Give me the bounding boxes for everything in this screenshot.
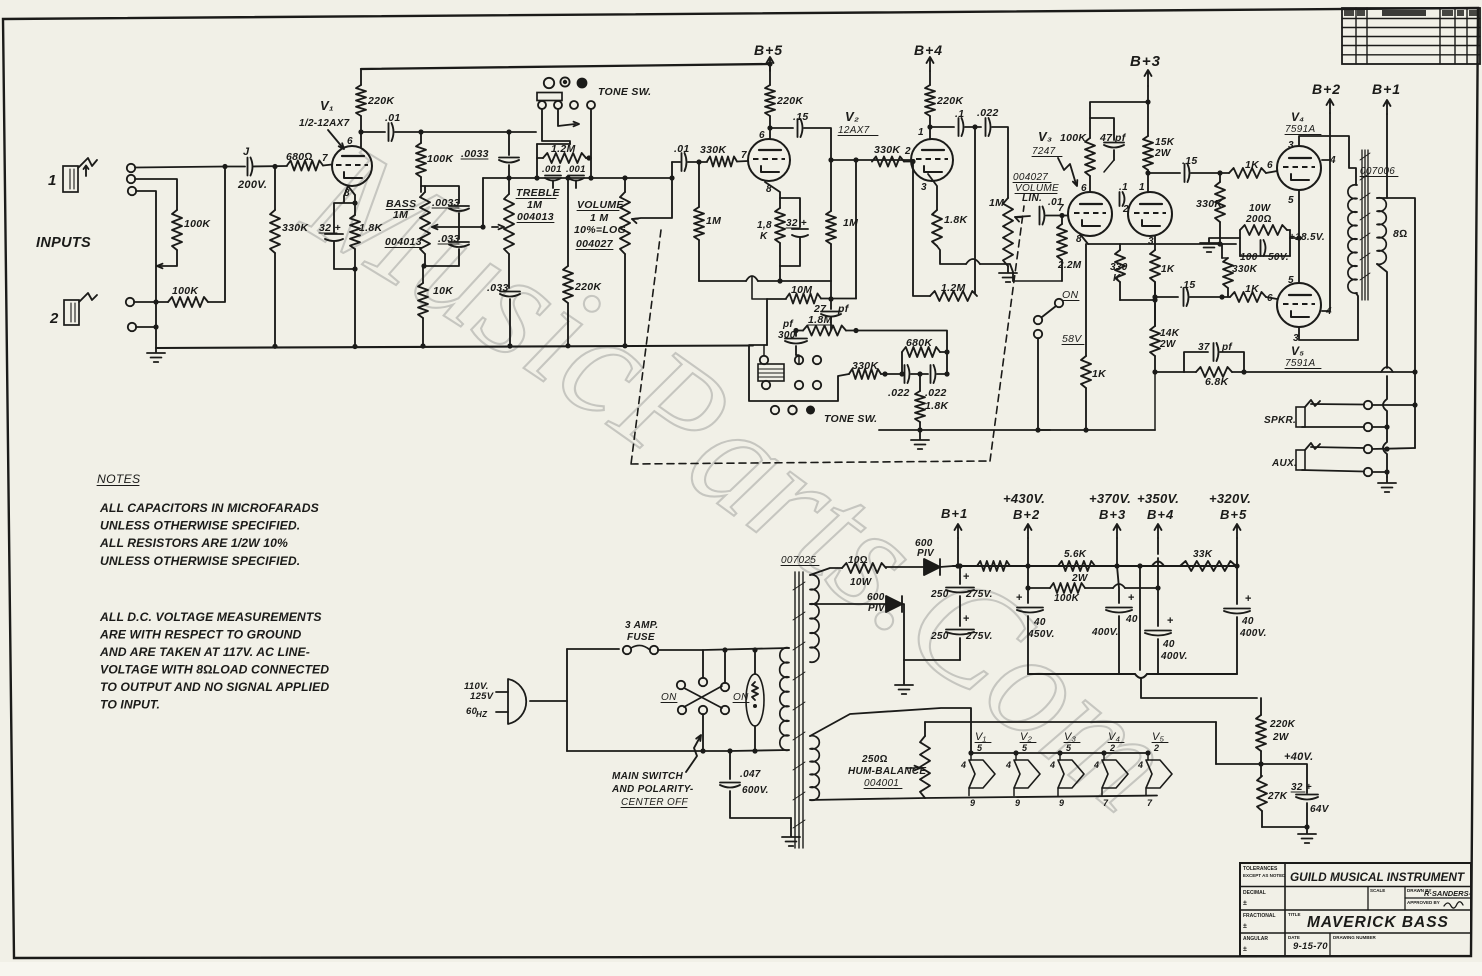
pin 1 V2b [918,127,924,138]
resistor 220K V2a plate [765,64,804,138]
arrow V3 label [1058,158,1077,186]
wire jack2 sleeve [136,324,159,329]
svg-text:7: 7 [741,150,747,161]
power transformer core [793,572,805,848]
tone switch SW2 slider [758,364,784,381]
wire bias cap link [1261,764,1307,793]
tone switch SW2 bottom row [771,406,815,415]
pin 3 V3b [1148,236,1154,247]
input jack J1 tip contact [127,164,135,172]
svg-text:6: 6 [1267,293,1273,304]
svg-text:TITLE: TITLE [1288,912,1301,917]
resistor 330K upper grid [1196,173,1225,247]
svg-text:004013: 004013 [517,211,554,223]
label TONE SW. upper [598,86,651,98]
svg-text:2: 2 [904,146,911,157]
output transformer secondary [1377,198,1386,265]
svg-text:ALL RESISTORS ARE 1/2W 10%: ALL RESISTORS ARE 1/2W 10% [99,536,288,550]
fuse [623,645,658,654]
label NOTES heading [97,472,140,486]
svg-text:450V.: 450V. [1027,629,1055,640]
svg-text:1,8: 1,8 [757,220,772,231]
pin 7 V1 [322,153,328,164]
resistor 330K V2a grid [700,144,737,167]
svg-text:4: 4 [960,760,966,770]
wire cap bottoms [904,659,960,661]
svg-text:12AX7: 12AX7 [838,125,870,136]
power arrow B+4 [927,57,934,71]
resistor 330K tone sw2 [849,360,881,379]
tube V1 1/2-12AX7 [332,146,372,186]
wire volume wiper to .01 [672,161,680,163]
svg-text:32 +: 32 + [786,218,807,229]
power arrow B+4 psu [1155,524,1162,591]
svg-text:100K: 100K [1054,593,1080,604]
wire bias feed [1137,563,1257,698]
svg-text:1K: 1K [1245,283,1260,295]
svg-text:HZ: HZ [476,710,488,719]
svg-text:7: 7 [1147,798,1153,808]
label B+2 [1312,81,1341,97]
junction 330K right [882,371,887,376]
svg-text:V₃: V₃ [1038,129,1052,144]
svg-text:37: 37 [1198,342,1210,353]
svg-text:.15: .15 [1180,279,1196,291]
wire 2.2M ground link [1013,280,1062,282]
label 2 [49,310,59,327]
capacitor .15 upper [1148,155,1198,182]
svg-text:5.6K: 5.6K [1064,549,1087,560]
wire AUX tip [1311,446,1415,451]
input jack J1 [63,158,97,192]
wire heater pin5 rail [971,752,1148,754]
label AUX. [1271,458,1297,469]
svg-text:V₄: V₄ [1108,731,1120,743]
label +370V B+3 [1089,491,1131,522]
resistor 27K bias [1257,776,1288,827]
main switch contacts lower [678,706,729,714]
resistor 2.2M V3 grid [1057,216,1082,282]
svg-text:400V.: 400V. [1091,627,1119,638]
svg-text:.022: .022 [977,107,999,119]
svg-text:+: + [963,571,970,583]
wire jack1 tip to node A [135,167,225,168]
resistor 1.8K V2b cathode [932,210,968,246]
svg-text:2W: 2W [1159,339,1177,350]
svg-text:PIV: PIV [917,548,935,559]
power transformer primary [780,648,789,751]
wire bass pot bottom [421,254,426,283]
svg-text:1K: 1K [1245,159,1260,171]
resistor rail dropper [977,561,1010,571]
svg-text:UNLESS OTHERWISE SPECIFIED.: UNLESS OTHERWISE SPECIFIED. [100,554,300,568]
svg-text:100K: 100K [184,218,211,230]
capacitor 40uF 400V b4 [1145,588,1188,674]
capacitor .01 V3 grid [1040,197,1063,225]
pin 3 V4 [1288,140,1294,151]
svg-text:B+3: B+3 [1130,53,1161,70]
rail hop B+4 [1152,562,1164,567]
wire cap to 680 ohm [253,165,287,168]
svg-text:NOTES: NOTES [97,472,140,486]
arrow main switch pointer [686,735,701,772]
wire tail join [1120,299,1155,301]
wire 1.8K bottom to line [917,422,922,433]
wire plug to riser [530,700,567,702]
output transformer primary [1348,185,1357,293]
svg-text:27K: 27K [1267,791,1288,802]
capacitor .01 V2a grid [674,143,690,171]
svg-text:64V: 64V [1310,804,1330,815]
potentiometer 250 ohm hum balance [906,736,930,798]
tube V5 7591A [1277,283,1321,327]
pin 6 V2a [759,130,765,141]
svg-text:8Ω: 8Ω [1393,228,1408,240]
svg-text:TREBLE: TREBLE [516,187,560,199]
svg-text:330K: 330K [700,144,727,156]
svg-text:40: 40 [1162,639,1175,650]
resistor 1K lower [1230,283,1266,302]
svg-text:2: 2 [1109,743,1115,753]
resistor 680K [899,337,949,377]
title block title [1307,914,1449,931]
resistor 1K upper [1229,159,1266,178]
junction volume wiper rail [669,175,674,180]
label V2 [838,109,878,136]
svg-text:2W: 2W [1272,732,1290,743]
capacitor 32+ 64V bias [1291,782,1330,827]
wire SW1 contact drops [542,109,591,178]
wire 10M right up [853,157,858,298]
wire plug riser [566,649,568,751]
svg-text:220K: 220K [1269,719,1296,730]
wire V3 tail down [1154,282,1156,326]
svg-text:V₄: V₄ [1291,110,1304,124]
capacitor .001 a [542,164,562,188]
pilot lamp [746,647,764,753]
power arrow B+2 psu [1025,524,1032,569]
svg-text:58V: 58V [1062,333,1082,345]
wire treble bottom [508,254,510,288]
svg-text:4: 4 [1137,760,1143,770]
svg-text:TONE SW.: TONE SW. [824,413,877,425]
ground symbol jacks [1378,477,1396,492]
svg-text:9-15-70: 9-15-70 [1293,941,1328,952]
wire tone out line [879,429,1050,431]
wire 680 ohm to V1 pin7 [323,165,332,166]
wire B+1 to OT [1386,114,1388,198]
contact 58V [1034,330,1084,345]
capacitor J 200V [237,146,267,191]
wire hum balance to bias rail [924,722,926,736]
capacitor .022 left [881,365,910,399]
svg-text:B+5: B+5 [754,42,783,58]
svg-text:V₁: V₁ [975,731,987,743]
svg-text:+350V.: +350V. [1137,491,1179,506]
tube heater connections V1-V5 [960,731,1172,808]
svg-text:ALL CAPACITORS IN MICROFARADS: ALL CAPACITORS IN MICROFARADS [99,501,319,515]
capacitor .033 bass [425,233,469,266]
wire feedback bus [699,276,831,281]
svg-text:220K: 220K [574,281,602,293]
svg-text:+: + [1167,615,1174,627]
wire HV secondary top [810,568,842,575]
title block drawn by [1424,889,1472,898]
resistor 15K 2W [1143,136,1175,192]
svg-text:SPKR.: SPKR. [1264,415,1296,426]
junction between .022s [911,371,928,376]
label 007006 [1360,166,1398,177]
svg-text:250Ω: 250Ω [861,754,888,765]
wire heater bottom rail [925,796,1157,799]
resistor 10M feedback [767,284,856,304]
svg-text:CENTER OFF: CENTER OFF [621,797,688,808]
power arrow B+1 [1384,100,1391,114]
svg-text:5: 5 [1022,743,1028,753]
diode 600PIV aux [810,592,960,614]
svg-text:V₁: V₁ [320,98,334,113]
wire V3a cathode drop [1080,234,1088,244]
svg-text:.15: .15 [1182,155,1198,167]
pin 6 V1 [347,136,353,147]
arrow V1 label to tube [328,130,344,149]
ground symbol psu [895,660,913,694]
svg-text:AND POLARITY-: AND POLARITY- [611,784,694,795]
resistor 1K V3 tail b [1150,236,1175,326]
svg-text:125V: 125V [470,691,494,702]
jack AUX sleeve contact [1364,468,1372,476]
wire 10K to ground bus [420,318,425,349]
svg-text:TO OUTPUT AND NO SIGNAL APPLIE: TO OUTPUT AND NO SIGNAL APPLIED [100,680,329,694]
svg-text:5: 5 [1066,743,1072,753]
svg-text:EXCEPT AS NOTED: EXCEPT AS NOTED [1243,873,1286,878]
wire B+5 rail [361,64,770,69]
svg-text:2.2M: 2.2M [1057,260,1082,271]
junction V1 plate [358,129,363,134]
svg-text:100: 100 [1240,252,1258,263]
wire sw2 stub b [796,355,799,364]
label hum balance [848,754,926,789]
AC plug [496,679,526,724]
resistor 220K volume bleed [563,178,602,348]
label +320V B+5 [1209,491,1251,522]
svg-text:4: 4 [1093,760,1099,770]
tone switch SW1 slider [537,93,562,101]
svg-text:B+4: B+4 [914,42,943,58]
wire 14K to NFB line [1155,371,1184,373]
svg-text:9: 9 [970,798,975,808]
ground symbol input [147,348,165,362]
svg-text:VOLUME: VOLUME [577,199,624,211]
svg-text:10Ω: 10Ω [848,555,868,566]
ground symbol output cathode [1200,238,1240,252]
pin 3 V2b [921,182,927,193]
capacitor 40uF 400V b3 [1091,566,1138,674]
potentiometer volume lin 1M [989,197,1013,266]
svg-text:1K: 1K [1161,264,1175,275]
svg-text:pf: pf [782,319,794,330]
resistor 1.2M tone [537,143,592,178]
tone switch SW1 lower contacts [538,101,595,109]
svg-text:220K: 220K [367,95,395,107]
svg-text:7247: 7247 [1032,146,1056,157]
resistor 100K V3 plate [1060,102,1148,192]
junction bias node [1258,751,1263,776]
jack AUX tip contact [1364,445,1372,453]
svg-text:AND ARE TAKEN AT 117V. AC LINE: AND ARE TAKEN AT 117V. AC LINE- [99,645,310,659]
main switch contacts upper [677,678,729,691]
wire upper rail [703,648,789,650]
capacitor .022 V2b out [977,107,999,136]
input jack J2 [64,293,97,325]
ground symbol tone sw2 [911,430,929,449]
svg-text:9: 9 [1059,798,1064,808]
capacitor 27pf [813,296,850,330]
svg-text:007025: 007025 [781,555,816,566]
jack AUX [1296,443,1320,470]
capacitor 40uF 450V [1016,585,1055,674]
capacitor 100uF 50V [1240,230,1290,263]
capacitor 32+ V1 cathode bypass [319,203,355,269]
svg-text:DRAWING NUMBER: DRAWING NUMBER [1333,935,1376,940]
pin 6 V3a [1081,183,1087,194]
svg-text:1: 1 [48,172,57,189]
wire jack common [1383,369,1418,477]
svg-text:+430V.: +430V. [1003,491,1045,506]
wire heater bias rail [925,721,1216,723]
resistor 10K [418,283,454,318]
revision record table [1342,8,1480,64]
ground bus preamp [156,346,753,349]
svg-text:6: 6 [1081,183,1087,194]
svg-text:5: 5 [1288,275,1294,286]
wire heater top lead [810,708,971,753]
capacitor 47pf [1090,118,1127,172]
svg-text:.0033: .0033 [461,148,489,160]
wire feedback out [856,331,947,353]
notes paragraph 1 [99,501,319,568]
wire diode aux node [902,604,904,660]
svg-text:MAVERICK BASS: MAVERICK BASS [1307,914,1449,931]
capacitor .047 line [720,751,791,818]
svg-text:10K: 10K [433,285,454,297]
title block company name [1290,870,1466,884]
resistor 1.8K V2a cathode [757,198,785,266]
svg-text:HUM-BALANCE: HUM-BALANCE [848,766,926,777]
svg-text:3: 3 [921,182,927,193]
jack SPKR [1296,400,1320,427]
svg-text:1/2-12AX7: 1/2-12AX7 [299,118,350,129]
svg-text:TOLERANCES: TOLERANCES [1243,866,1278,872]
svg-text:200V.: 200V. [237,179,267,191]
svg-text:.1: .1 [1119,182,1128,193]
svg-text:400V.: 400V. [1160,651,1188,662]
svg-text:.0033: .0033 [432,197,460,209]
potentiometer BASS 1M 004013 [385,186,430,254]
wire psu cap bus [1028,674,1237,678]
tube V2a 12AX7 [748,139,790,181]
svg-text:330: 330 [1110,262,1128,273]
svg-text:330K: 330K [874,144,901,156]
svg-text:330K: 330K [282,222,309,234]
capacitor .01 V1 coupling [385,112,401,141]
wire cathode to 200 ohm loop [1290,237,1299,239]
svg-text:1.8M: 1.8M [808,314,833,326]
label ON left [661,692,677,703]
svg-text:APPROVED BY: APPROVED BY [1407,900,1440,905]
wire volume lin wiper [1015,216,1030,222]
svg-text:600V.: 600V. [742,785,769,796]
wire bass loop top [421,186,459,203]
junction .01 grid node [696,159,701,164]
wire V2a cathode to bus [777,266,782,284]
svg-text:004001: 004001 [864,778,899,789]
pin 4 V5 [1325,306,1332,317]
svg-text:32 +: 32 + [319,222,341,234]
pin 6 V5 [1267,293,1273,304]
junction 100K top [418,129,423,134]
wire 1.8M to tone sw2 area [793,328,803,333]
resistor 1M V2a grid leak [694,162,721,281]
wire volume wiper [632,162,672,223]
input jack J2 tip contact [126,298,134,306]
svg-text:600: 600 [867,592,885,603]
junction lower coupling [1152,294,1157,299]
label V1 [299,98,350,129]
jack SPKR tip contact [1364,401,1372,409]
capacitor .001 b [534,164,593,188]
wire standby bus [1038,372,1155,430]
junction treble cap top [506,129,511,134]
svg-text:B+2: B+2 [1312,81,1341,97]
svg-text:100K: 100K [1060,132,1087,144]
svg-text:004027: 004027 [576,238,614,250]
wire SPKR sleeve [1302,424,1390,429]
pin 8 V2a [766,184,772,195]
resistor 1.8K V1 cathode [350,195,383,269]
wire V2a cathode [765,182,780,198]
resistor 330K input [270,164,309,349]
wire speaker line hop [1381,367,1393,372]
svg-text:250: 250 [930,589,949,600]
svg-text:330K: 330K [852,360,879,372]
pin 3 V5 [1293,333,1299,344]
resistor 100K tone [416,132,454,177]
svg-text:V₃: V₃ [1064,731,1077,743]
svg-text:7: 7 [322,153,328,164]
pin 7 V3 [1058,203,1064,214]
junction coupling to grid2 [828,157,833,162]
svg-text:2: 2 [1122,204,1129,215]
watermark MusicParts.Com [279,111,1203,842]
svg-text:ON: ON [661,692,677,703]
svg-text:6: 6 [759,130,765,141]
svg-text:ARE WITH RESPECT TO GROUND: ARE WITH RESPECT TO GROUND [99,628,302,642]
wire main B rail [953,565,1237,567]
dashed enclosure tone switches [631,206,1024,464]
tube V3a 7247 [1068,192,1112,236]
wire fuse to switch [658,650,703,678]
svg-text:680K: 680K [906,337,933,349]
svg-text:004027: 004027 [1013,172,1048,183]
power arrow B+2 [1327,99,1334,113]
svg-text:B+1: B+1 [1372,81,1401,97]
notes paragraph 2 [99,610,329,712]
svg-text:10%=LOG: 10%=LOG [574,224,626,236]
wire grid2 line [831,159,914,161]
wire .01 to V3 pin7 [1046,213,1068,218]
svg-text:B+5: B+5 [1220,507,1247,522]
